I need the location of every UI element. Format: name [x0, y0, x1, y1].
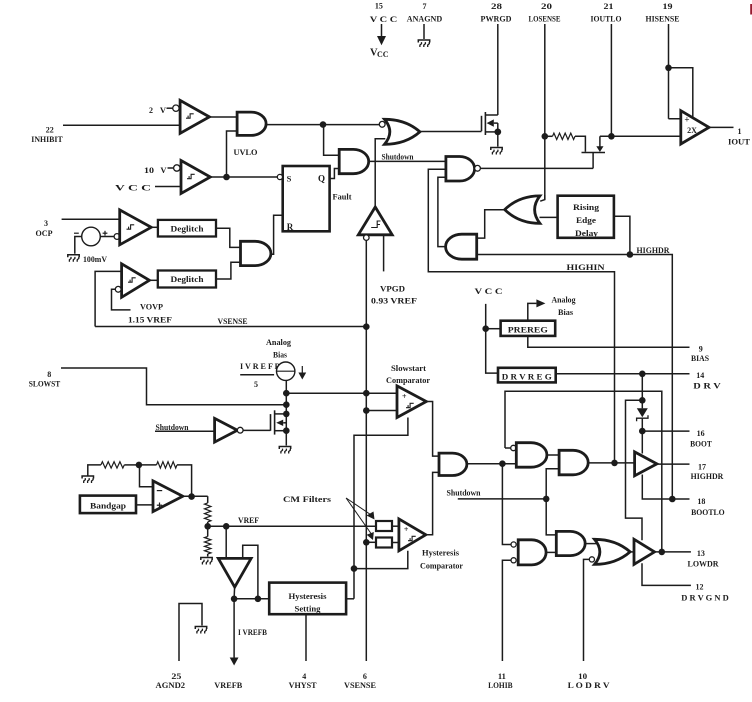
node shutdown junction — [543, 496, 550, 503]
wire U24 out — [234, 587, 269, 599]
svg-text:INHIBIT: INHIBIT — [31, 134, 63, 144]
wire OR10 out to AND11 — [477, 210, 505, 238]
pin 7 ANAGND — [407, 2, 443, 39]
node slowstart comp tap — [283, 390, 290, 397]
inverter U13 — [215, 418, 238, 442]
and-gate AND8 fault combine — [241, 241, 271, 265]
wire IVREFB pin5 underline — [240, 374, 274, 376]
svg-text:LOHIB: LOHIB — [488, 680, 513, 690]
arrow VREFB — [230, 654, 239, 666]
wire NAND16 out to AND17 — [547, 454, 559, 456]
wire VSENSE horizontal — [95, 326, 366, 328]
wire shutdown lower line — [458, 498, 546, 500]
wire latch Q to fault AND — [330, 169, 340, 179]
bubble OR21 lower input — [589, 557, 594, 562]
wire R2 leads — [139, 465, 192, 497]
pin 20 LOSENSE — [529, 2, 561, 200]
wire BOOTLO rail — [642, 475, 689, 500]
wire U14 minus input — [366, 410, 397, 412]
red mark top-right corner — [750, 4, 752, 15]
svg-text:L O D R V: L O D R V — [568, 680, 611, 690]
box rising edge delay — [558, 196, 614, 238]
wire Q4 source to ground — [497, 132, 499, 147]
svg-text:100mV: 100mV — [83, 254, 108, 264]
svg-text:1: 1 — [738, 127, 742, 136]
wire deglitch1 to AND8 — [216, 228, 241, 247]
pin 12 DRVGND — [681, 583, 729, 603]
svg-text:Bias: Bias — [558, 307, 574, 317]
pin 28 PWRGD — [481, 2, 512, 115]
label Comparator ss — [386, 375, 430, 385]
node BOOTLO junction — [669, 496, 676, 503]
svg-text:Shutdown: Shutdown — [156, 423, 190, 432]
nand-gate U5 — [446, 157, 475, 182]
bubble AND19 top — [511, 542, 516, 547]
svg-text:VPGD: VPGD — [380, 284, 405, 294]
wire AND15 to AND19 top — [502, 464, 511, 545]
wire HIGHIN feedback to U5 — [428, 169, 614, 463]
wire R1 to node — [124, 464, 139, 466]
wire VPGD to OR — [375, 139, 385, 208]
wire HIGHDR line — [477, 255, 673, 500]
svg-text:VHYST: VHYST — [289, 680, 317, 690]
wire shutdown net vertical — [546, 469, 559, 535]
wire CM1 to comparator — [392, 525, 399, 527]
wire hyst box to trunk — [346, 598, 354, 600]
node HISENSE junction — [665, 65, 672, 72]
label Analog Bias left — [266, 337, 292, 360]
ground Q12 — [279, 447, 290, 454]
ground AGND2 — [195, 627, 206, 634]
svg-text:VSENSE: VSENSE — [218, 316, 248, 326]
wire I1 to node — [285, 380, 287, 430]
svg-text:AGND2: AGND2 — [156, 680, 186, 690]
comparator U9 OVP — [122, 264, 150, 298]
svg-text:1.15 VREF: 1.15 VREF — [128, 314, 172, 324]
pin 11 LOHIB — [488, 672, 513, 690]
label I VREFB — [238, 628, 268, 637]
wire latch R input — [271, 215, 283, 254]
wire U9 to deglitch2 — [149, 279, 157, 281]
wire prereg to analog bias arrow — [528, 299, 546, 320]
buffer U18 HIGHDR driver — [635, 452, 657, 476]
svg-text:+: + — [402, 392, 407, 401]
svg-text:IOUTLO: IOUTLO — [591, 14, 622, 24]
pin VREFB label — [214, 680, 242, 690]
svg-text:Shutdown: Shutdown — [447, 488, 482, 497]
node hyst trunk tap — [351, 565, 358, 572]
svg-text:28: 28 — [491, 2, 502, 11]
wire U14 out to AND15 — [426, 402, 439, 457]
pin 18 BOOTLO — [691, 497, 725, 517]
node IOUTLO junction — [608, 133, 615, 140]
pin 4 VHYST — [289, 672, 317, 690]
wire U24 feedback — [243, 545, 258, 599]
node UVLO lower junction — [223, 174, 230, 181]
resistor sense — [553, 133, 576, 139]
wire U2 out to latch S — [210, 176, 277, 178]
svg-text:CM Filters: CM Filters — [283, 494, 332, 504]
bubble U2 threshold input — [174, 165, 180, 171]
svg-text:VSENSE: VSENSE — [344, 680, 376, 690]
svg-text:+: + — [404, 525, 409, 534]
amp U4 2X — [681, 111, 709, 144]
svg-text:S: S — [287, 174, 292, 184]
wire offset to bubble — [100, 236, 114, 238]
bubble U9 input — [115, 286, 121, 292]
pin 14 DRV — [693, 371, 722, 390]
svg-text:HIGHDR: HIGHDR — [691, 471, 724, 481]
svg-text:UVLO: UVLO — [234, 147, 258, 157]
wire fb to opamp minus — [139, 465, 153, 487]
svg-text:Delay: Delay — [575, 228, 599, 238]
wire DRV line — [556, 373, 690, 375]
wire deglitch2 to AND8 — [216, 262, 241, 279]
and-gate NAND16 — [516, 443, 547, 468]
wire DRVGND — [642, 563, 691, 585]
label Comparator comp — [420, 560, 463, 570]
node LOSENSE junction — [542, 133, 549, 140]
wire AND19 out — [546, 551, 556, 553]
wire bandgap to opamp — [136, 504, 153, 506]
bubble U5 output — [475, 165, 481, 171]
box Bandgap — [80, 496, 136, 513]
label VREF — [238, 515, 259, 525]
resistor R4 vref bottom — [205, 526, 211, 556]
label UVLO — [234, 147, 258, 157]
label Shutdown lower — [447, 488, 482, 497]
bubble AND19 bottom — [511, 558, 516, 563]
label 2V threshold — [149, 105, 173, 115]
wire BOOT pin line — [642, 430, 689, 432]
wire DRV to LOWDR rail — [626, 400, 643, 540]
node slowstart drain — [283, 411, 290, 418]
wire BOOT rail into driver — [641, 431, 643, 453]
bubble OR top input — [379, 121, 385, 127]
label Shutdown inverter — [156, 423, 190, 432]
node DRV junction — [639, 371, 646, 378]
label Shutdown upper — [382, 153, 415, 162]
svg-text:PWRGD: PWRGD — [481, 14, 512, 24]
node U14 minus tap — [363, 407, 370, 414]
wire AND17 out to driver — [588, 462, 634, 464]
wire U6 ref stub — [383, 235, 385, 272]
wire trunk VSENSE mid — [365, 327, 367, 542]
svg-text:Rising: Rising — [573, 202, 600, 212]
svg-text:0.93 VREF: 0.93 VREF — [371, 296, 417, 306]
svg-text:14: 14 — [696, 371, 704, 380]
wire delay box out — [614, 216, 630, 254]
pin 16 BOOT — [690, 429, 712, 449]
svg-text:BOOT: BOOT — [690, 439, 712, 449]
pin 10 wire LODRV — [584, 559, 590, 661]
wire U9 ref stub — [112, 289, 131, 310]
label 0.93 VREF — [371, 296, 417, 306]
ground R4 — [201, 558, 212, 565]
pin 21 IOUTLO — [591, 2, 622, 136]
pin 17 HIGHDR — [691, 463, 724, 481]
wire OR21 out — [630, 551, 634, 553]
wire R3 to vref node — [207, 522, 209, 526]
label latch Q — [318, 174, 325, 184]
box PREREG — [501, 321, 556, 336]
pin 15 VCC — [370, 1, 398, 59]
wire LOSENSE into OR10 — [540, 195, 545, 201]
svg-text:Deglitch: Deglitch — [171, 224, 205, 233]
node U14 plus tap — [363, 390, 370, 397]
wire VSENSE trunk upper — [365, 240, 367, 327]
wire U7 to deglitch1 — [151, 226, 158, 228]
svg-text:2: 2 — [149, 106, 153, 115]
arrow analog bias down — [298, 366, 306, 380]
comparator U25 hysteresis — [399, 519, 426, 551]
wire U23 out — [183, 496, 208, 503]
wire Q12 source to ground — [285, 431, 287, 446]
and-gate AND11 mirrored — [446, 234, 477, 259]
comparator U6 VPGD — [358, 207, 392, 235]
wire AGND2 — [179, 604, 202, 662]
node VREF buffer tap — [223, 523, 230, 530]
pin 13 LOWDR — [688, 549, 720, 569]
label pin 5 — [254, 380, 258, 389]
node delay out junction — [627, 251, 634, 258]
comparator U7 OCP — [120, 210, 152, 245]
or-gate shutdown OR — [385, 119, 420, 144]
label VOVP — [140, 301, 163, 311]
wire VREFB down — [233, 599, 235, 654]
label HIGHIN — [567, 262, 606, 272]
bubble latch S input — [277, 174, 282, 179]
svg-text:HISENSE: HISENSE — [646, 14, 680, 24]
svg-text:V C C: V C C — [115, 183, 151, 193]
resistor R3 vref top — [205, 503, 211, 522]
svg-text:Setting: Setting — [295, 604, 322, 614]
wire bubble stub — [505, 447, 511, 449]
svg-text:LOSENSE: LOSENSE — [529, 14, 561, 24]
wire U13 to Q12 gate — [243, 429, 270, 431]
box CM filter 2 — [376, 538, 392, 548]
svg-text:I V R E F B: I V R E F B — [240, 361, 280, 371]
box CM filter 1 — [376, 521, 392, 531]
wire HISENSE loop to 2X amp — [669, 68, 693, 119]
pin 25 AGND2 — [156, 672, 186, 690]
svg-text:Hysteresis: Hysteresis — [289, 591, 328, 601]
wire hysteresis chain upper — [354, 418, 408, 599]
node VCC prereg junction — [482, 325, 489, 332]
svg-text:16: 16 — [697, 429, 705, 438]
node U24 out junction — [231, 596, 238, 603]
pin 11 wire LOHIB — [502, 560, 511, 661]
latch U3 SR — [283, 166, 330, 231]
box DRV REG — [498, 368, 556, 383]
svg-text:V C C: V C C — [475, 286, 503, 296]
node CM2 tap — [363, 539, 370, 546]
wire AND6 out to U5 — [438, 177, 446, 246]
wire LOSENSE to resistor — [545, 135, 553, 137]
wire VSENSE to U9 — [95, 271, 122, 326]
wire UVLO AND lower input — [227, 131, 238, 177]
svg-text:D R V G N D: D R V G N D — [681, 593, 729, 603]
diode D1 bootstrap — [637, 408, 648, 431]
svg-text:5: 5 — [254, 380, 258, 389]
svg-text:BOOTLO: BOOTLO — [691, 507, 725, 517]
svg-text:21: 21 — [604, 2, 614, 11]
wire CM2 to comparator — [392, 542, 399, 544]
pin 8 SLOWST — [29, 368, 287, 405]
wire offset to ground — [75, 237, 82, 254]
svg-text:V C C: V C C — [370, 14, 398, 24]
label Slowstart — [391, 363, 426, 373]
ground bandgap res — [82, 476, 93, 483]
wire ground to R1 — [88, 465, 101, 476]
and-gate AND19 — [518, 540, 546, 565]
node diode anode — [639, 397, 646, 404]
label Fault — [333, 192, 352, 202]
svg-text:Hysteresis: Hysteresis — [422, 547, 460, 557]
wire HIGHDR pin line — [657, 463, 690, 465]
bubble U1 threshold input — [173, 105, 179, 111]
wire IOUT — [709, 126, 734, 128]
svg-text:Slowstart: Slowstart — [391, 363, 426, 373]
transistor Q5 current sense — [582, 136, 606, 168]
source I1 IVREFB — [277, 362, 295, 380]
svg-text:22: 22 — [46, 125, 54, 134]
label latch R — [287, 222, 294, 232]
svg-text:3: 3 — [44, 219, 48, 228]
bubble U6 input — [364, 235, 370, 241]
svg-text:V: V — [160, 105, 167, 115]
label 100mV — [83, 254, 108, 264]
node HIGHIN junction — [611, 460, 618, 467]
or-gate OR10 mirrored — [505, 196, 540, 224]
wire UVLO out — [266, 124, 380, 126]
svg-text:R: R — [287, 222, 294, 232]
buffer U22 LOWDR driver — [634, 539, 655, 564]
pin 3 OCP — [36, 219, 120, 238]
wire OR out to Q4 gate — [420, 131, 482, 133]
label IVREFB — [240, 361, 280, 371]
wire slowstart to comparator — [286, 392, 397, 394]
and-gate AND15 — [439, 453, 467, 475]
and-gate AND20 — [556, 531, 585, 555]
pin 6 VSENSE — [344, 672, 376, 690]
svg-text:19: 19 — [663, 2, 673, 11]
svg-text:Comparator: Comparator — [420, 560, 463, 570]
wire U25 out to AND15 — [426, 472, 439, 534]
label VPGD — [380, 284, 405, 294]
svg-text:+: + — [684, 115, 689, 125]
comparator U14 slowstart — [397, 386, 426, 418]
or-gate OR21 — [595, 539, 631, 564]
svg-text:OCP: OCP — [36, 228, 53, 238]
pin 22 INHIBIT — [31, 125, 180, 144]
box hysteresis setting — [269, 583, 346, 615]
ground ANAGND — [418, 40, 429, 47]
label HIGHDR net — [637, 245, 671, 255]
svg-text:Analog: Analog — [266, 337, 292, 347]
wire trunk VSENSE lower — [365, 542, 367, 661]
svg-text:HIGHDR: HIGHDR — [637, 245, 671, 255]
node BOOT junction — [639, 428, 646, 435]
wire shutdown to inverter — [155, 430, 215, 432]
svg-text:Q: Q — [318, 174, 325, 184]
svg-text:15: 15 — [375, 1, 383, 10]
node LOWDR junction — [659, 549, 666, 556]
svg-text:Fault: Fault — [333, 192, 352, 202]
and-gate fault — [339, 149, 368, 173]
svg-text:Analog: Analog — [552, 294, 577, 304]
svg-text:VREF: VREF — [238, 515, 259, 525]
svg-text:13: 13 — [697, 549, 705, 558]
wire UVLO to fault AND — [323, 125, 339, 156]
wire VCC down — [486, 304, 498, 373]
svg-text:Comparator: Comparator — [386, 375, 430, 385]
svg-text:LOWDR: LOWDR — [688, 559, 720, 569]
svg-text:I VREFB: I VREFB — [238, 628, 268, 637]
node UVLO out junction — [320, 121, 327, 128]
wire shutdown to NAND — [369, 160, 446, 162]
bubble U7 input — [114, 234, 120, 240]
label CM Filters — [283, 494, 332, 504]
wire hyst to comparator — [354, 551, 408, 569]
svg-text:Bandgap: Bandgap — [90, 500, 126, 510]
arrow CM1 — [346, 498, 374, 520]
svg-text:Bias: Bias — [273, 350, 288, 360]
wire trunk to CM2 — [366, 541, 376, 543]
svg-text:BIAS: BIAS — [691, 353, 709, 363]
label latch S — [287, 174, 292, 184]
comparator U2 10V schmitt — [181, 161, 210, 194]
svg-text:V: V — [160, 165, 167, 175]
label 1.15 VREF — [128, 314, 172, 324]
svg-text:HIGHIN: HIGHIN — [567, 262, 606, 272]
label Analog Bias right — [552, 294, 577, 317]
box deglitch1 — [158, 220, 216, 237]
svg-text:10: 10 — [144, 166, 154, 175]
comparator U1 2V schmitt — [180, 100, 209, 133]
node bandgap fb — [136, 462, 143, 469]
node AND15 out junction — [499, 460, 506, 467]
wire OR10 input from delay box — [540, 216, 558, 218]
wire BIAS line — [528, 336, 690, 347]
and-gate UVLO — [237, 112, 266, 135]
wire U5 out to Q5 source — [480, 167, 593, 169]
node slowstart source — [283, 427, 290, 434]
label VCC prereg — [475, 286, 503, 296]
svg-text:D R V: D R V — [693, 380, 722, 390]
svg-text:SLOWST: SLOWST — [29, 378, 61, 388]
svg-text:Edge: Edge — [576, 215, 596, 225]
label 10V threshold — [144, 165, 174, 175]
resistor R2 feedback — [157, 462, 178, 468]
arrow CM2 — [346, 498, 374, 540]
svg-text:12: 12 — [696, 583, 704, 592]
svg-text:VREFB: VREFB — [214, 680, 242, 690]
svg-text:PREREG: PREREG — [508, 324, 548, 334]
svg-text:VOVP: VOVP — [140, 301, 163, 311]
node VSENSE junction — [363, 323, 370, 330]
svg-text:20: 20 — [541, 2, 552, 11]
pin 1 IOUT — [728, 127, 750, 147]
svg-text:ANAGND: ANAGND — [407, 14, 443, 24]
wire AND15 out — [467, 463, 516, 465]
svg-text:2X: 2X — [687, 126, 697, 135]
ground Q4 — [491, 148, 502, 155]
bubble NAND16 top input — [511, 445, 516, 450]
svg-text:CC: CC — [377, 50, 389, 59]
label VSENSE net — [218, 316, 248, 326]
svg-text:Deglitch: Deglitch — [171, 275, 205, 284]
